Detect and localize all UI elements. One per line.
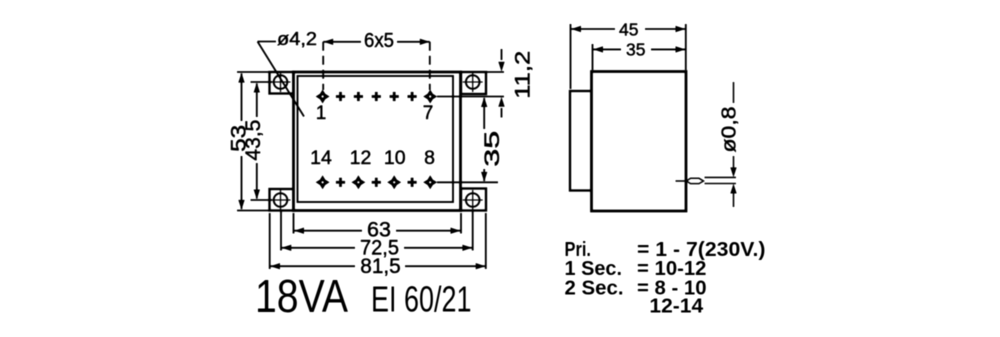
svg-text:11,2: 11,2 — [510, 51, 534, 99]
svg-text:14: 14 — [310, 147, 332, 169]
svg-text:2 Sec.: 2 Sec. — [565, 276, 624, 299]
svg-text:ø4,2: ø4,2 — [277, 28, 317, 49]
svg-text:1: 1 — [316, 103, 327, 124]
svg-text:ø0,8: ø0,8 — [719, 107, 741, 153]
svg-text:35: 35 — [480, 131, 504, 167]
svg-text:6x5: 6x5 — [364, 30, 394, 52]
svg-text:43,5: 43,5 — [241, 120, 265, 161]
svg-text:10: 10 — [384, 147, 406, 169]
svg-text:81,5: 81,5 — [360, 254, 401, 278]
svg-text:12: 12 — [350, 147, 372, 169]
svg-text:12-14: 12-14 — [649, 295, 703, 318]
svg-text:8: 8 — [424, 147, 435, 169]
svg-text:45: 45 — [619, 20, 638, 40]
svg-text:EI 60/21: EI 60/21 — [371, 279, 472, 320]
svg-text:35: 35 — [626, 40, 645, 60]
svg-text:7: 7 — [423, 103, 434, 124]
svg-text:18VA: 18VA — [255, 270, 348, 322]
